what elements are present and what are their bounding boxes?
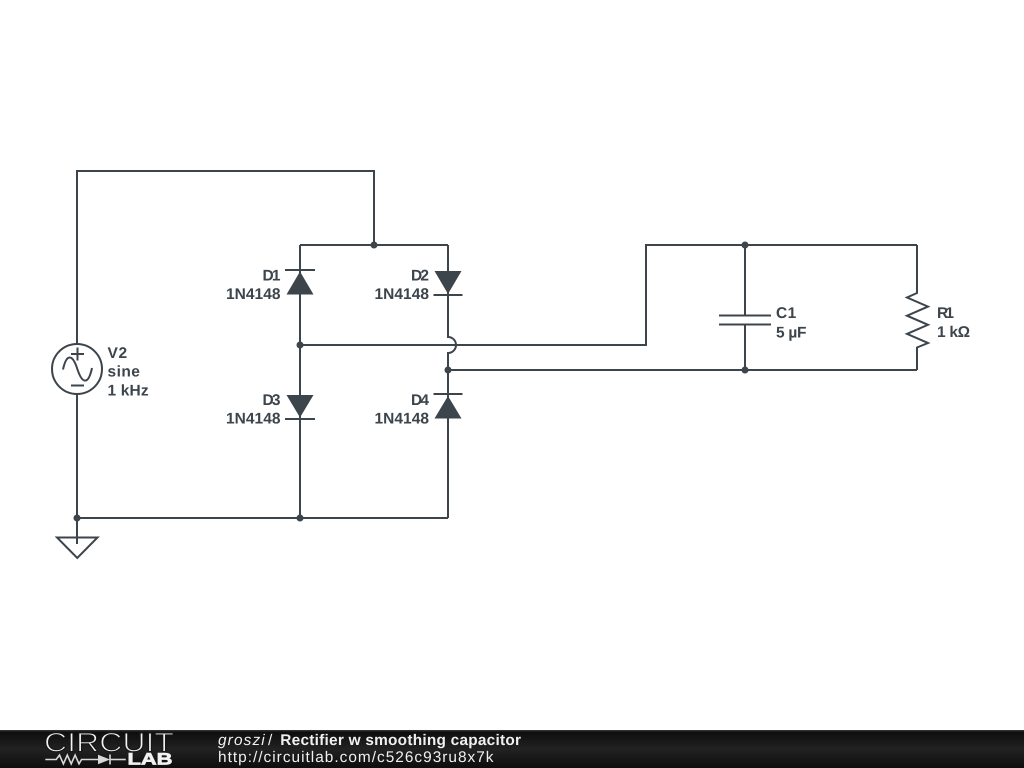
- svg-text:D3: D3: [263, 392, 281, 409]
- svg-text:D1: D1: [263, 268, 281, 285]
- svg-text:1N4148: 1N4148: [226, 411, 281, 428]
- svg-text:V2: V2: [108, 345, 128, 362]
- svg-text:LAB: LAB: [128, 751, 173, 768]
- svg-text:sine: sine: [108, 364, 141, 381]
- svg-text:/: /: [268, 732, 273, 749]
- svg-text:http://circuitlab.com/c526c93r: http://circuitlab.com/c526c93ru8x7k: [218, 749, 494, 766]
- svg-text:1 kΩ: 1 kΩ: [937, 324, 970, 341]
- svg-text:C1: C1: [776, 305, 797, 322]
- svg-text:Rectifier w smoothing capacito: Rectifier w smoothing capacitor: [280, 732, 521, 749]
- svg-text:1N4148: 1N4148: [226, 286, 281, 303]
- svg-text:1N4148: 1N4148: [375, 411, 430, 428]
- svg-text:D4: D4: [411, 392, 429, 409]
- svg-text:5 µF: 5 µF: [776, 325, 807, 342]
- svg-text:1 kHz: 1 kHz: [108, 383, 149, 400]
- svg-text:groszi: groszi: [218, 732, 265, 749]
- svg-text:R1: R1: [937, 305, 954, 322]
- svg-text:1N4148: 1N4148: [375, 286, 430, 303]
- svg-text:D2: D2: [411, 268, 429, 285]
